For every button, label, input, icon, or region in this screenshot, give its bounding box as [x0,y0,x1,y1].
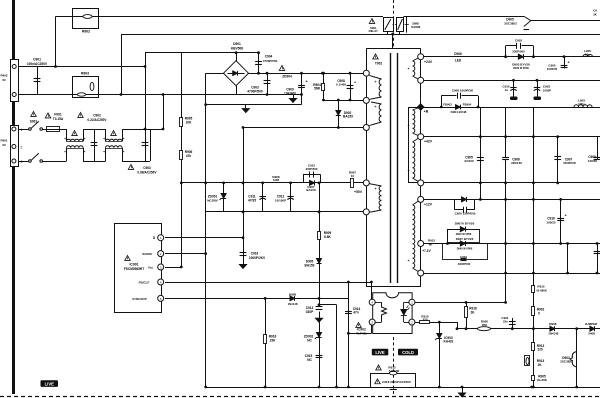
svg-text:D908: D908 [549,322,557,326]
svg-text:330P/500: 330P/500 [306,167,318,171]
svg-text:KA431: KA431 [444,340,454,344]
svg-text:BA159: BA159 [305,263,315,267]
svg-text:1000P/2KV: 1000P/2KV [249,256,266,260]
svg-text:+: + [407,67,409,71]
svg-text:SA698: SA698 [411,25,421,29]
svg-text:IN: IN [3,78,6,82]
svg-text:T902: T902 [375,62,382,66]
svg-text:3408: 3408 [588,332,595,336]
svg-text:1000/35: 1000/35 [547,67,558,71]
svg-text:KBV506: KBV506 [231,46,243,50]
svg-text:R913: R913 [388,366,396,370]
svg-text:COLD: COLD [402,350,414,355]
svg-text:FB904: FB904 [463,102,472,106]
svg-text:S901: S901 [30,120,38,124]
svg-text:1000P/2K: 1000P/2K [563,161,577,165]
svg-text:1: 1 [21,128,23,132]
svg-text:3K: 3K [593,12,597,16]
svg-text:D907A BYV26: D907A BYV26 [455,221,475,225]
svg-text:+: + [64,137,66,141]
svg-text:0: 0 [538,311,540,315]
svg-text:+: + [64,150,66,154]
svg-text:2: 2 [21,145,23,149]
svg-text:100/25: 100/25 [546,220,556,224]
svg-text:+: + [407,259,409,263]
svg-text:SJR04W: SJR04W [389,369,400,373]
svg-text:4J-680K: 4J-680K [536,289,547,293]
svg-text:47k: 47k [186,154,192,158]
svg-text:0.68/AC250V: 0.68/AC250V [137,170,157,174]
svg-text:+: + [103,150,105,154]
svg-text:2SC3852: 2SC3852 [504,21,517,25]
svg-text:ZD904: ZD904 [282,74,292,78]
svg-text:NC: NC [307,358,312,362]
svg-text:+: + [123,137,125,141]
svg-text:FB903: FB903 [443,102,452,106]
svg-text:8J-36K: 8J-36K [537,378,548,382]
svg-text:+7.2V: +7.2V [422,249,431,253]
svg-text:6.8K: 6.8K [324,235,331,239]
svg-text:BA159: BA159 [343,115,353,119]
svg-text:D907 BYV26: D907 BYV26 [456,237,474,241]
svg-text:1u: 1u [505,88,509,92]
svg-text:SYNC/OVP: SYNC/OVP [132,297,147,301]
svg-text:0.22/AC250V: 0.22/AC250V [87,118,107,122]
svg-text:10u: 10u [585,52,590,56]
svg-text:2SC3852: 2SC3852 [560,360,573,364]
svg-text:+: + [354,81,356,85]
svg-text:+24V: +24V [424,60,433,64]
svg-text:220/160: 220/160 [511,161,522,165]
svg-text:+12V: +12V [424,203,433,207]
svg-text:1000P: 1000P [543,88,551,92]
svg-text:T3.15A: T3.15A [53,117,64,121]
svg-text:+: + [565,214,567,218]
svg-text:LIVE: LIVE [375,350,385,355]
svg-text:220: 220 [422,318,427,322]
svg-text:+B: +B [424,110,429,114]
svg-text:6.8R: 6.8R [273,178,280,182]
svg-text:D940 W 0P08: D940 W 0P08 [513,67,529,70]
svg-text:47/35: 47/35 [248,199,256,203]
svg-text:+: + [84,150,86,154]
svg-text:22/100: 22/100 [464,159,474,163]
svg-text:10: 10 [351,174,355,178]
svg-text:+: + [407,169,409,173]
svg-text:6R: 6R [429,242,433,246]
svg-text:+: + [374,187,376,191]
svg-text:10E/400: 10E/400 [284,92,296,96]
svg-text:NC: NC [307,338,312,342]
svg-text:C920 330P/500: C920 330P/500 [455,211,476,215]
svg-text:15K: 15K [270,338,277,342]
svg-text:D908: D908 [289,293,297,297]
svg-text:1K: 1K [537,363,542,367]
svg-text:100u: 100u [578,102,585,106]
svg-text:NC/28V: NC/28V [207,199,218,203]
svg-text:D940 W 0P08: D940 W 0P08 [457,248,473,251]
svg-text:220: 220 [537,348,543,352]
svg-text:100/50: 100/50 [588,159,598,163]
svg-text:D906: D906 [454,52,462,56]
svg-text:22n: 22n [503,320,508,324]
svg-text:2K: 2K [470,310,475,314]
svg-text:3: 3 [21,160,23,164]
svg-text:0.1/400: 0.1/400 [336,83,346,87]
svg-text:D903 BYV26: D903 BYV26 [512,62,530,66]
svg-text:R902: R902 [82,30,90,34]
svg-text:+: + [407,124,409,128]
svg-text:+: + [374,105,376,109]
svg-text:47n: 47n [353,311,359,315]
svg-text:D904 BU48: D904 BU48 [451,110,467,114]
svg-text:36K: 36K [482,323,488,327]
svg-text:4700P/500: 4700P/500 [263,59,278,63]
svg-text:100n/AC250V: 100n/AC250V [27,62,48,66]
svg-text:C918 2200P/AC250V: C918 2200P/AC250V [382,380,411,384]
svg-text:1N4148: 1N4148 [288,302,298,306]
svg-text:330P/500: 330P/500 [512,50,525,54]
svg-text:FB/CLF: FB/CLF [139,281,150,285]
svg-text:+50V: +50V [354,190,363,194]
svg-text:BA159: BA159 [306,188,316,192]
svg-text:Vcc: Vcc [148,266,154,270]
svg-text:+: + [374,80,376,84]
svg-text:R903: R903 [81,72,89,76]
svg-text:RELAY: RELAY [369,29,378,33]
svg-text:+: + [103,137,105,141]
svg-text:C902: C902 [515,38,523,42]
svg-text:IC901: IC901 [129,263,138,267]
svg-text:10K: 10K [186,120,193,124]
svg-text:+: + [84,137,86,141]
svg-text:TLP421: TLP421 [356,331,367,335]
svg-text:JUMPER: JUMPER [585,322,598,326]
svg-text:330P/500: 330P/500 [458,262,471,266]
svg-text:10/100P: 10/100P [275,199,286,203]
svg-text:C919: C919 [460,255,468,259]
svg-text:D940 W 0P08: D940 W 0P08 [456,233,472,236]
svg-text:4700P/500: 4700P/500 [247,90,263,94]
svg-text:+: + [123,150,125,154]
svg-text:LIVE: LIVE [45,382,55,387]
svg-text:C906 1000P/2K: C906 1000P/2K [452,89,474,93]
svg-text:330P: 330P [306,310,314,314]
svg-text:+42V: +42V [424,139,433,143]
svg-text:56R: 56R [314,87,321,91]
svg-text:LED: LED [455,59,462,63]
svg-text:IN: IN [3,143,6,147]
svg-text:FSCM0565RT: FSCM0565RT [124,267,144,271]
svg-text:1N4148: 1N4148 [548,332,559,336]
svg-text:+: + [567,61,569,65]
svg-text:S/GND: S/GND [142,252,152,256]
